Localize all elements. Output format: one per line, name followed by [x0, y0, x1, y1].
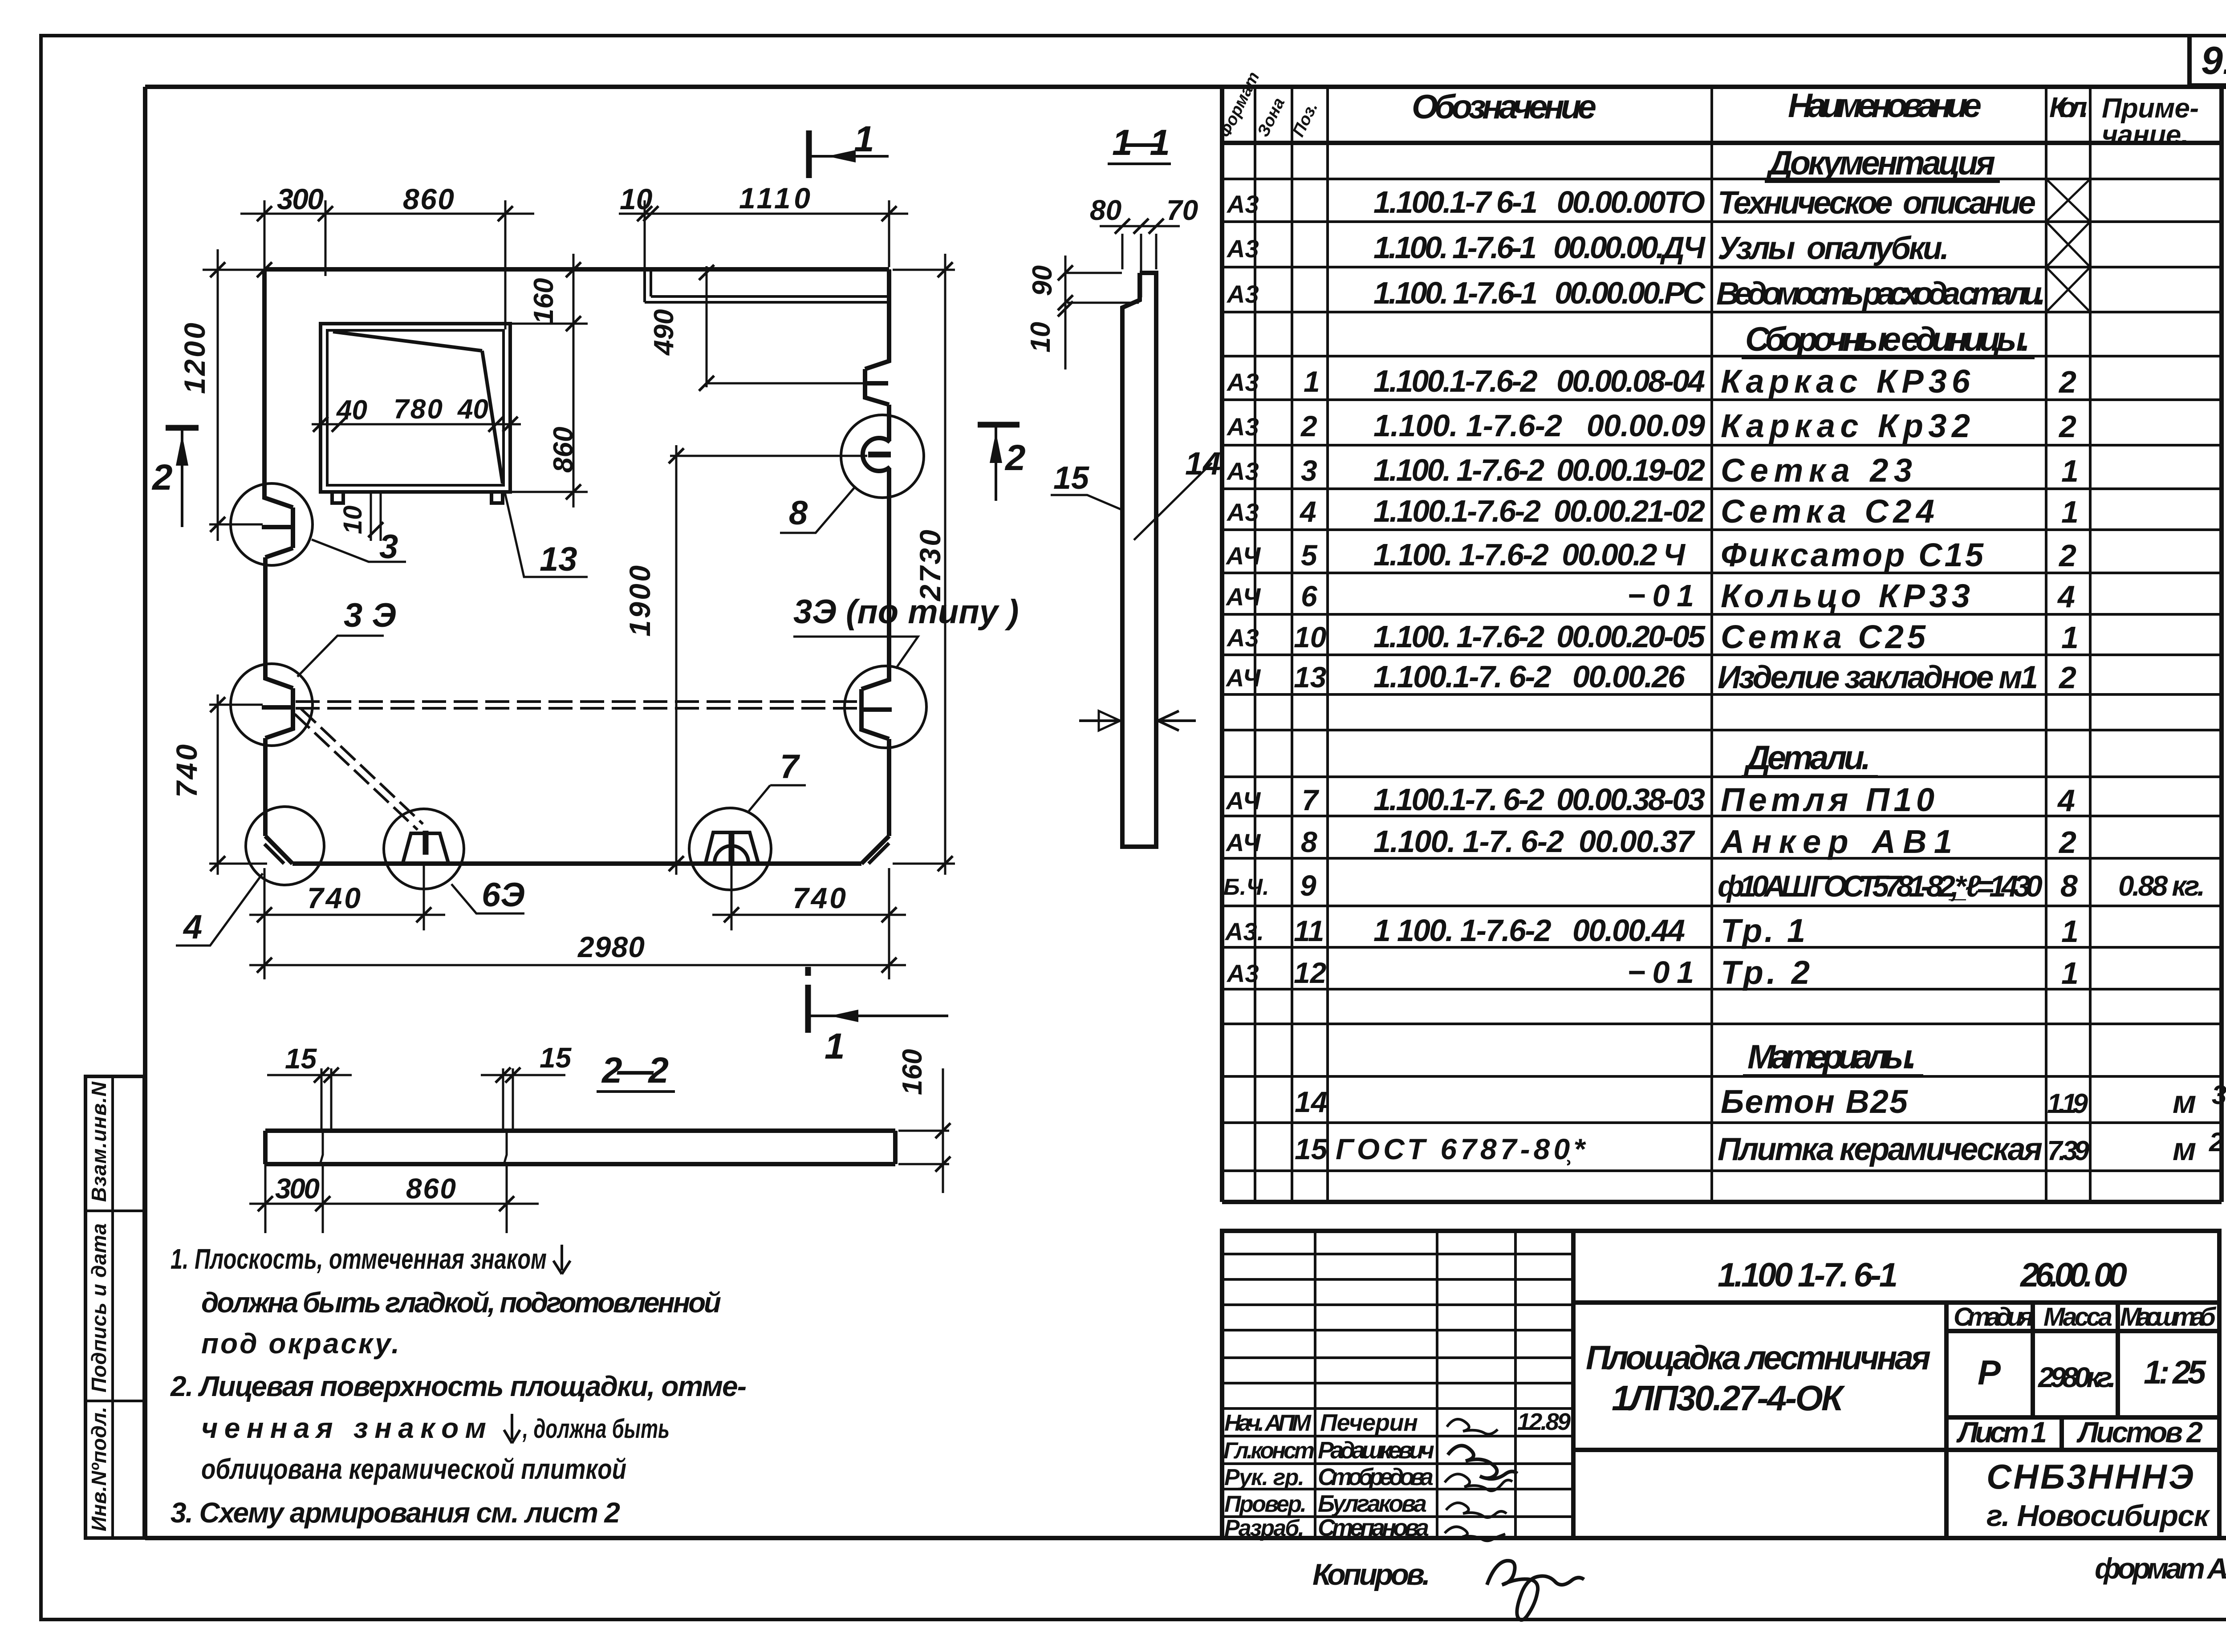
note 1 down-arrow symbol — [553, 1245, 570, 1274]
svg-text:13: 13 — [1294, 661, 1326, 694]
svg-text:2980: 2980 — [577, 930, 645, 963]
svg-text:Площадка лестничная: Площадка лестничная — [1586, 1339, 1931, 1377]
svg-text:1.100. 1-7.6-1 00.00.00.РС: 1.100. 1-7.6-1 00.00.00.РС — [1373, 276, 1706, 310]
svg-text:3Э (по типу ): 3Э (по типу ) — [793, 593, 1019, 631]
svg-text:чание.: чание. — [2102, 120, 2189, 150]
section 2-2 dim 15 right — [481, 1068, 565, 1131]
svg-text:740: 740 — [170, 744, 203, 798]
svg-text:ГОСТ 6787-80̹*: ГОСТ 6787-80̹* — [1336, 1132, 1586, 1165]
section 1-1 top dims 80/70 — [1100, 226, 1180, 297]
svg-text:2: 2 — [2058, 409, 2076, 444]
svg-text:40: 40 — [336, 395, 367, 426]
svg-text:Сетка С25: Сетка С25 — [1721, 618, 1926, 655]
svg-text:Бетон В25: Бетон В25 — [1721, 1083, 1909, 1120]
section 2-2 dim 15 left — [267, 1068, 352, 1131]
svg-text:8: 8 — [2060, 869, 2078, 903]
svg-text:А3: А3 — [1226, 280, 1259, 308]
svg-text:А3: А3 — [1226, 368, 1259, 396]
extension line below 6Э — [423, 864, 425, 930]
svg-text:1: 1 — [854, 119, 874, 159]
svg-text:1ЛП30.27-4-ОК: 1ЛП30.27-4-ОК — [1612, 1378, 1845, 1418]
svg-text:Рук. гр.: Рук. гр. — [1224, 1465, 1304, 1490]
title block signature table rows — [1222, 1254, 1573, 1517]
svg-text:14: 14 — [1185, 446, 1221, 482]
section mark 1 top — [806, 130, 812, 178]
svg-text:Лист 1: Лист 1 — [1956, 1416, 2047, 1449]
title block signature table verticals — [1315, 1231, 1515, 1538]
svg-text:1.100 1-7. 6-1: 1.100 1-7. 6-1 — [1718, 1256, 1898, 1294]
loop П10 arc — [715, 846, 748, 863]
section 1-1 left dims 90/10 — [1065, 256, 1122, 369]
svg-text:А3: А3 — [1226, 457, 1259, 485]
svg-text:Узлы опалубки.: Узлы опалубки. — [1718, 231, 1949, 266]
svg-text:Печерин: Печерин — [1320, 1409, 1418, 1436]
svg-text:15: 15 — [1295, 1132, 1328, 1165]
extension line below 7 — [731, 864, 733, 930]
svg-text:СНБ3НННЭ: СНБ3НННЭ — [1986, 1457, 2194, 1496]
svg-text:Техническое описание: Техническое описание — [1718, 185, 2036, 221]
right dim 1900 — [670, 445, 867, 875]
svg-text:2. Лицевая поверхность площ: 2. Лицевая поверхность площадки, отме- — [170, 1370, 747, 1402]
svg-text:Наименование: Наименование — [1788, 87, 1982, 125]
detail circle 3Э right — [845, 666, 926, 748]
svg-text:Каркас КР36: Каркас КР36 — [1721, 363, 1970, 400]
svg-text:−01: −01 — [1627, 955, 1694, 990]
svg-text:490: 490 — [649, 309, 679, 356]
specification table row lines — [1222, 179, 2222, 1171]
svg-text:1.100.1-7.6-2 00.00.21-02: 1.100.1-7.6-2 00.00.21-02 — [1373, 494, 1705, 528]
svg-text:1110: 1110 — [739, 182, 810, 215]
svg-text:АЧ: АЧ — [1225, 828, 1261, 856]
svg-text:Детали.: Детали. — [1743, 739, 1871, 777]
top-right rebate lines — [645, 269, 888, 302]
specification table frame — [1222, 87, 2222, 1202]
svg-text:1—1: 1—1 — [1112, 122, 1170, 163]
svg-text:12.89: 12.89 — [1517, 1408, 1571, 1435]
svg-text:2: 2 — [1004, 438, 1026, 478]
svg-text:160: 160 — [528, 278, 559, 324]
svg-text:АЧ: АЧ — [1225, 787, 1261, 815]
svg-text:1.100.1-7. 6-2 00.00.38-03: 1.100.1-7. 6-2 00.00.38-03 — [1373, 782, 1705, 817]
svg-text:3: 3 — [379, 528, 398, 566]
keyway arm detail 3Э — [262, 705, 293, 710]
svg-text:2: 2 — [2058, 825, 2076, 860]
svg-text:10: 10 — [620, 183, 653, 215]
svg-text:Степанова: Степанова — [1318, 1514, 1429, 1541]
left margin stamp strip — [85, 1076, 144, 1538]
bottom dim 740 left — [249, 868, 445, 930]
svg-text:Радашкевич: Радашкевич — [1318, 1437, 1434, 1464]
svg-text:м: м — [2173, 1132, 2196, 1167]
svg-text:70: 70 — [1166, 194, 1198, 226]
svg-text:160: 160 — [897, 1049, 928, 1095]
svg-text:15: 15 — [285, 1043, 317, 1075]
svg-text:Копиров.: Копиров. — [1312, 1558, 1430, 1591]
svg-text:860: 860 — [548, 427, 579, 473]
title block outer frame — [1222, 1231, 2219, 1538]
svg-text:2980кг.: 2980кг. — [2038, 1361, 2116, 1393]
svg-text:г. Новосибирск: г. Новосибирск — [1986, 1499, 2211, 1533]
section 1-1 step line — [1067, 302, 1139, 304]
svg-text:8: 8 — [1301, 825, 1317, 858]
svg-text:Ведомость расхода стали.: Ведомость расхода стали. — [1716, 276, 2046, 312]
svg-text:Р: Р — [1978, 1353, 2001, 1392]
svg-text:26.00. 00: 26.00. 00 — [2019, 1256, 2127, 1294]
svg-text:АЧ: АЧ — [1225, 542, 1261, 570]
svg-text:Нач. АПМ: Нач. АПМ — [1224, 1410, 1312, 1436]
section 2-2 slab bar — [265, 1131, 895, 1164]
svg-text:2: 2 — [2058, 365, 2076, 399]
svg-text:780: 780 — [394, 394, 443, 425]
svg-text:1. Плоскость, отмеченная знак: 1. Плоскость, отмеченная знаком — [171, 1243, 547, 1275]
svg-text:11: 11 — [1294, 914, 1324, 947]
svg-text:300: 300 — [275, 1173, 320, 1205]
svg-text:1: 1 — [825, 1026, 845, 1067]
svg-text:1.100.1-7.6-2 00.00.08-04: 1.100.1-7.6-2 00.00.08-04 — [1373, 364, 1705, 398]
svg-text:10: 10 — [1294, 621, 1327, 653]
svg-text:4: 4 — [2057, 579, 2075, 614]
svg-text:90: 90 — [1027, 265, 1058, 296]
section 2-2 tile joints — [320, 1131, 507, 1164]
dashed axis double line horizontal — [296, 702, 861, 708]
svg-text:300: 300 — [277, 183, 324, 215]
svg-text:Листов 2: Листов 2 — [2076, 1416, 2203, 1449]
svg-text:4: 4 — [2057, 783, 2075, 818]
svg-text:Масса: Масса — [2043, 1303, 2112, 1331]
svg-text:15: 15 — [1053, 460, 1089, 496]
svg-text:1: 1 — [1304, 365, 1320, 398]
svg-text:1: 1 — [2061, 956, 2079, 990]
svg-text:1: 1 — [2061, 620, 2079, 655]
opening dim line 40/780/40 — [312, 423, 521, 426]
svg-text:4: 4 — [1299, 495, 1316, 528]
svg-text:А3: А3 — [1226, 235, 1259, 263]
left dim extension lines — [203, 270, 267, 864]
svg-text:А3: А3 — [1226, 624, 1259, 652]
signature squiggle Булгакова — [1446, 1503, 1507, 1518]
svg-text:1.100.1-7. 6-2 00.00.26: 1.100.1-7. 6-2 00.00.26 — [1373, 659, 1686, 694]
svg-text:Фиксатор С15: Фиксатор С15 — [1721, 536, 1984, 573]
svg-text:1.100. 1-7.6-2 00.00.19-02: 1.100. 1-7.6-2 00.00.19-02 — [1373, 453, 1705, 487]
loop П10 trapezoid detail 7 — [706, 832, 758, 863]
svg-text:9: 9 — [1300, 869, 1316, 902]
opening (hole) outer rect — [321, 324, 510, 492]
svg-text:формат А3: формат А3 — [2095, 1552, 2226, 1585]
svg-text:2: 2 — [151, 457, 173, 498]
svg-text:АЧ: АЧ — [1225, 664, 1261, 692]
section mark 2 right — [978, 422, 1020, 428]
svg-text:Гл.конст: Гл.конст — [1223, 1438, 1315, 1464]
svg-text:10: 10 — [338, 505, 367, 534]
svg-text:80: 80 — [1090, 194, 1121, 226]
svg-text:1: 1 — [2061, 495, 2079, 529]
bottom-right corner chamfer — [861, 836, 889, 864]
slab bottom edge — [292, 861, 861, 866]
section mark 1 bottom — [805, 967, 811, 1033]
svg-text:2: 2 — [1300, 410, 1317, 442]
svg-text:6Э: 6Э — [482, 876, 525, 914]
page number box 91 — [2189, 37, 2226, 85]
signature squiggle Радашкевич — [1448, 1445, 1517, 1479]
svg-text:Подпись и дата: Подпись и дата — [87, 1223, 110, 1392]
svg-text:Изделие закладное м1: Изделие закладное м1 — [1718, 660, 2038, 695]
svg-text:Приме-: Приме- — [2102, 93, 2199, 124]
svg-text:м: м — [2173, 1084, 2196, 1120]
svg-text:Инв.Nºподл.: Инв.Nºподл. — [87, 1407, 110, 1531]
svg-text:Обозначение: Обозначение — [1412, 88, 1596, 126]
signature squiggle Печерин — [1447, 1419, 1498, 1434]
svg-text:А3: А3 — [1226, 498, 1259, 526]
svg-text:1: 1 — [2061, 454, 2079, 488]
svg-text:1.100.1-7 6-1 00.00.00ТО: 1.100.1-7 6-1 00.00.00ТО — [1373, 185, 1705, 219]
svg-text:под окраску.: под окраску. — [201, 1327, 399, 1360]
slab top edge — [264, 267, 889, 272]
svg-text:Разраб.: Разраб. — [1224, 1515, 1304, 1541]
svg-text:1.19: 1.19 — [2047, 1088, 2088, 1119]
svg-text:3: 3 — [1301, 454, 1317, 487]
svg-text:14: 14 — [1295, 1085, 1327, 1118]
svg-text:Кол.: Кол. — [2049, 91, 2088, 123]
detail circle 6Э — [384, 809, 464, 889]
svg-text:2: 2 — [2209, 1127, 2224, 1157]
svg-text:Стобредова: Стобредова — [1318, 1464, 1434, 1490]
note 2 inline down-arrow — [504, 1414, 520, 1443]
svg-text:2: 2 — [2058, 660, 2076, 695]
title block main dividers — [1573, 1303, 2219, 1538]
small square right under opening — [492, 492, 503, 503]
top dimension extension lines — [264, 200, 505, 329]
section 2-2 bottom dims 300/860 — [249, 1164, 539, 1233]
dashed diagonal to 6Э — [295, 709, 423, 830]
svg-text:40: 40 — [457, 394, 488, 425]
svg-text:91: 91 — [2201, 38, 2226, 82]
keyway arm detail 3Э right — [862, 707, 892, 712]
bottom dim 2980 — [249, 930, 906, 979]
detail circle 3Э left — [231, 664, 313, 746]
svg-text:облицована керамической плит: облицована керамической плиткой — [201, 1453, 626, 1485]
svg-text:740: 740 — [792, 881, 846, 914]
anchor АВ1 loop (detail 8) — [863, 438, 890, 471]
vertical dim 160/860 at opening — [573, 254, 575, 507]
svg-text:А3: А3 — [1226, 959, 1259, 987]
svg-text:7: 7 — [780, 748, 800, 786]
svg-text:А3: А3 — [1226, 413, 1259, 441]
right dim 490 — [707, 266, 868, 387]
svg-text:7: 7 — [1302, 783, 1320, 816]
section 2-2 dim 160 — [898, 1068, 949, 1193]
svg-text:должна быть гладкой, подгот: должна быть гладкой, подготовленной — [201, 1287, 721, 1319]
svg-text:Булгакова: Булгакова — [1318, 1490, 1427, 1517]
left dimension line 1200/740 — [217, 249, 219, 875]
svg-text:Материалы.: Материалы. — [1747, 1038, 1917, 1076]
detail circle 3 — [231, 483, 313, 565]
svg-text:1.100. 1-7.6-2 00.00.2 Ч: 1.100. 1-7.6-2 00.00.2 Ч — [1373, 537, 1686, 572]
svg-text:15: 15 — [540, 1042, 572, 1074]
slab left edge with keyway notches — [264, 269, 293, 836]
svg-text:8: 8 — [789, 494, 808, 532]
detail circle 7 — [689, 808, 771, 890]
svg-text:А3: А3 — [1226, 190, 1259, 218]
svg-text:7.39: 7.39 — [2047, 1136, 2090, 1166]
top dimension line 10/1110 — [619, 213, 908, 215]
right dim 2730 — [893, 254, 955, 875]
opening 10 dim — [371, 492, 381, 541]
svg-text:АЧ: АЧ — [1225, 583, 1261, 611]
section 1-1 slab profile — [1122, 273, 1156, 847]
detail circle 4 — [246, 807, 324, 885]
svg-text:860: 860 — [406, 1173, 456, 1205]
svg-text:Взам.инв.N: Взам.инв.N — [87, 1081, 110, 1202]
fixing trapezoid 6Э — [403, 833, 448, 863]
svg-text:−01: −01 — [1627, 578, 1694, 613]
Копиров signature squiggle — [1487, 1561, 1584, 1620]
svg-text:1.100. 1-7.6-2 00.00.20-05: 1.100. 1-7.6-2 00.00.20-05 — [1373, 619, 1706, 654]
svg-text:А3.: А3. — [1224, 917, 1264, 946]
svg-text:3: 3 — [2212, 1080, 2226, 1110]
svg-text:1.100. 1-7.6-2 00.00.09: 1.100. 1-7.6-2 00.00.09 — [1373, 408, 1705, 443]
svg-text:Масштаб: Масштаб — [2120, 1303, 2217, 1331]
svg-text:Каркас Кр32: Каркас Кр32 — [1721, 407, 1970, 444]
svg-text:Анкер АВ1: Анкер АВ1 — [1720, 823, 1952, 860]
svg-text:0.88 кг.: 0.88 кг. — [2118, 870, 2205, 902]
svg-text:, должна быть: , должна быть — [522, 1414, 670, 1444]
svg-text:Провер.: Провер. — [1224, 1491, 1307, 1517]
svg-text:Б.Ч.: Б.Ч. — [1223, 874, 1269, 900]
svg-text:1: 1 — [2061, 914, 2079, 949]
bottom dim 740 right — [712, 868, 906, 979]
signature squiggle Степанова — [1445, 1527, 1505, 1541]
opening diagonal marks — [333, 332, 503, 483]
svg-text:Сборочные единицы.: Сборочные единицы. — [1745, 321, 2030, 358]
svg-text:13: 13 — [540, 540, 577, 578]
svg-text:1 100. 1-7.6-2 00.00.44: 1 100. 1-7.6-2 00.00.44 — [1373, 913, 1685, 948]
opening inner rect — [327, 330, 504, 485]
svg-text:1: 25: 1: 25 — [2144, 1354, 2207, 1391]
svg-text:ф10АШ ГОСТ5781-82,̲* ℓ=1430: ф10АШ ГОСТ5781-82,̲* ℓ=1430 — [1718, 869, 2043, 903]
small square left under opening — [332, 492, 343, 503]
section 1-1 surface arrows — [1079, 711, 1196, 731]
svg-text:Сетка С24: Сетка С24 — [1721, 493, 1934, 530]
svg-text:Стадия: Стадия — [1954, 1303, 2034, 1331]
svg-text:860: 860 — [403, 183, 454, 215]
detail circle 8 — [841, 415, 924, 498]
svg-text:5: 5 — [1301, 539, 1318, 572]
specification table column lines — [1255, 87, 2090, 1202]
svg-text:Плитка керамическая: Плитка керамическая — [1718, 1132, 2043, 1167]
slab right edge with fixator notch, anchor gap and keyway — [861, 269, 889, 836]
section mark 2 left — [166, 425, 199, 431]
svg-text:4: 4 — [183, 908, 202, 946]
svg-text:Кольцо КР33: Кольцо КР33 — [1721, 577, 1970, 614]
fixator notch arm — [864, 381, 888, 386]
svg-text:Документация: Документация — [1766, 144, 1995, 182]
svg-text:3 Э: 3 Э — [344, 597, 396, 634]
signature squiggle Стобредова — [1445, 1474, 1512, 1491]
svg-text:10: 10 — [1025, 322, 1056, 353]
svg-text:2: 2 — [2058, 538, 2076, 573]
bottom-left corner chamfer — [265, 836, 292, 864]
top dimension line 300/860 — [240, 213, 534, 215]
svg-text:2—2: 2—2 — [601, 1050, 669, 1091]
svg-text:3. Схему армирования см. лис: 3. Схему армирования см. лист 2 — [171, 1497, 620, 1529]
svg-text:1.100. 1-7. 6-2 00.00.37: 1.100. 1-7. 6-2 00.00.37 — [1373, 824, 1695, 859]
svg-text:6: 6 — [1301, 580, 1318, 613]
svg-text:1.100. 1-7.6-1 00.00.00.ДЧ: 1.100. 1-7.6-1 00.00.00.ДЧ — [1373, 230, 1706, 265]
keyway arm detail 3 — [262, 525, 293, 529]
svg-text:740: 740 — [307, 881, 361, 914]
svg-text:12: 12 — [1294, 956, 1327, 989]
